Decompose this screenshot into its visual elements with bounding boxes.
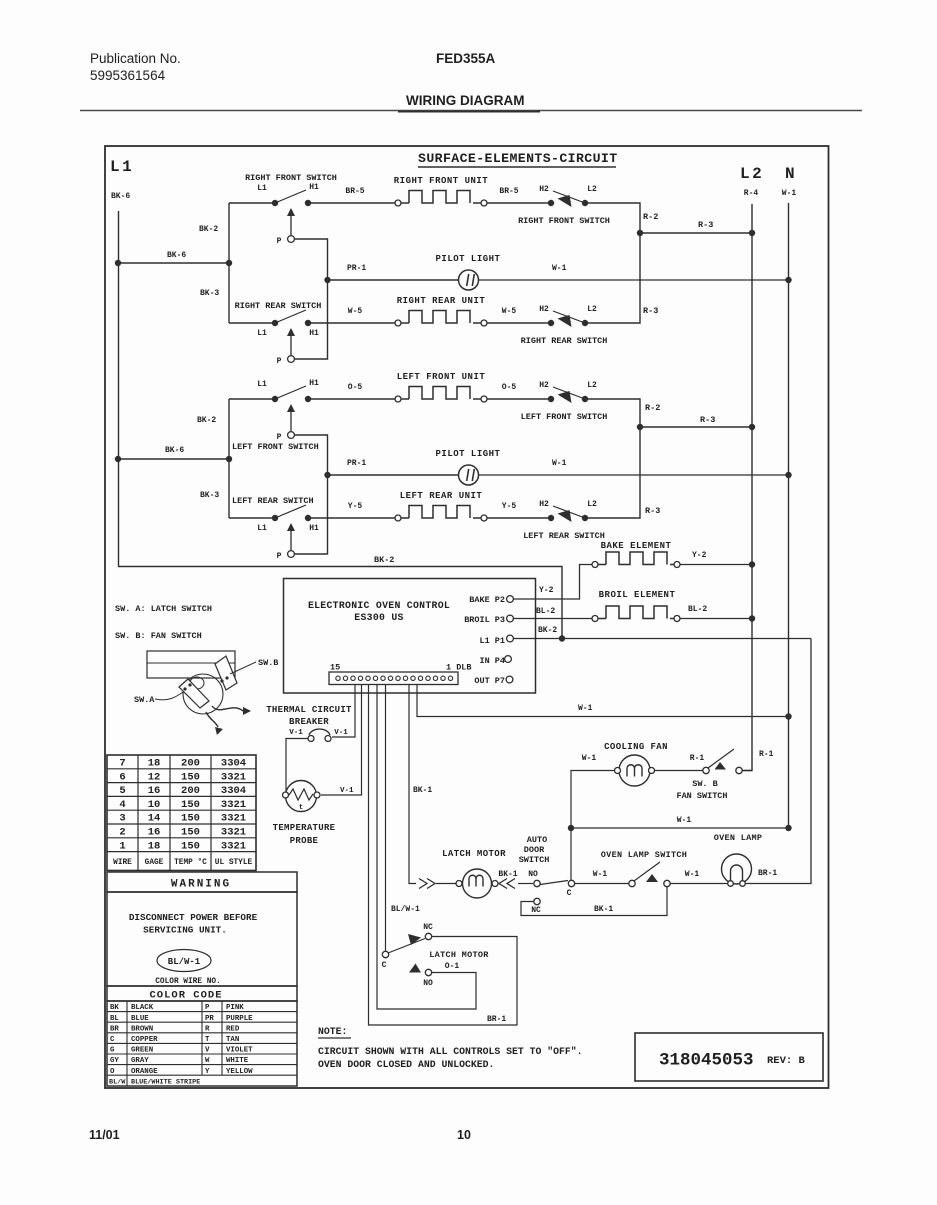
svg-text:16: 16	[148, 785, 161, 797]
wire P to pilot bus	[294, 435, 328, 554]
wire to element	[308, 517, 395, 519]
svg-text:Y-2: Y-2	[539, 586, 554, 595]
surface switch LEFT REAR SWITCH L1-H1 side	[275, 505, 306, 518]
svg-text:L2: L2	[587, 185, 597, 194]
svg-text:LEFT REAR SWITCH: LEFT REAR SWITCH	[232, 496, 314, 506]
wire to oven lamp	[670, 883, 728, 885]
svg-text:PINK: PINK	[226, 1004, 244, 1012]
svg-text:H1: H1	[309, 379, 319, 388]
wire to latch switch NC loop	[369, 685, 518, 1026]
wire W-1 pilot to N	[479, 474, 789, 476]
switch wiper arrow (upper)	[290, 409, 292, 431]
wire element to switch H2	[487, 322, 551, 324]
svg-text:PILOT LIGHT: PILOT LIGHT	[436, 449, 501, 459]
svg-text:V-1: V-1	[334, 729, 348, 737]
svg-text:18: 18	[148, 840, 161, 852]
svg-text:150: 150	[181, 813, 200, 825]
microswitch SW.A	[179, 679, 209, 708]
svg-text:CIRCUIT SHOWN WITH ALL CONTROL: CIRCUIT SHOWN WITH ALL CONTROLS SET TO "…	[318, 1046, 583, 1057]
svg-text:LATCH MOTOR: LATCH MOTOR	[442, 849, 506, 859]
latch switch (motor operated)	[382, 951, 388, 957]
wire L2 upper pair to R bus	[585, 203, 640, 323]
svg-text:Y-2: Y-2	[692, 551, 707, 560]
svg-text:VIOLET: VIOLET	[226, 1047, 253, 1055]
svg-text:150: 150	[181, 771, 200, 783]
svg-text:5: 5	[119, 785, 125, 797]
wire V-1 to temperature probe	[321, 685, 362, 796]
svg-text:BL-2: BL-2	[536, 607, 555, 616]
connector chevrons left	[419, 879, 435, 889]
svg-text:RIGHT REAR UNIT: RIGHT REAR UNIT	[397, 296, 486, 306]
svg-text:BL: BL	[110, 1015, 119, 1023]
svg-text:Y-5: Y-5	[348, 502, 363, 511]
wire N bus (W-1)	[788, 203, 790, 828]
svg-text:SWITCH: SWITCH	[519, 855, 550, 865]
svg-text:LATCH MOTOR: LATCH MOTOR	[429, 950, 489, 960]
svg-text:AUTO: AUTO	[527, 835, 547, 845]
junction pilot feed	[324, 472, 330, 478]
wire breaker to probe	[286, 739, 308, 796]
svg-text:COOLING FAN: COOLING FAN	[604, 742, 668, 752]
svg-text:W-1: W-1	[685, 870, 700, 879]
svg-text:BAKE ELEMENT: BAKE ELEMENT	[601, 541, 672, 551]
wire BK-1 to latch motor	[409, 685, 416, 884]
right front unit row wire	[229, 202, 275, 204]
terminal P (upper)	[288, 432, 295, 439]
svg-text:RIGHT REAR SWITCH: RIGHT REAR SWITCH	[235, 301, 322, 311]
svg-text:PROBE: PROBE	[290, 836, 319, 846]
svg-text:3321: 3321	[221, 840, 246, 852]
wire W-1 long run to N	[417, 685, 789, 717]
svg-text:GREEN: GREEN	[131, 1047, 153, 1055]
svg-text:H1: H1	[309, 524, 319, 533]
svg-text:SW. A: LATCH SWITCH: SW. A: LATCH SWITCH	[115, 604, 212, 614]
svg-text:L1: L1	[110, 158, 134, 176]
svg-text:COLOR CODE: COLOR CODE	[149, 990, 222, 1002]
svg-text:RIGHT REAR SWITCH: RIGHT REAR SWITCH	[521, 336, 608, 346]
EOC connector strip	[329, 672, 458, 685]
svg-text:H2: H2	[539, 185, 549, 194]
wire V-1 to thermal breaker	[332, 685, 355, 738]
color code table	[107, 1001, 297, 1086]
svg-text:BK-3: BK-3	[200, 289, 219, 298]
svg-text:BLACK: BLACK	[131, 1004, 154, 1012]
svg-text:BR-1: BR-1	[758, 869, 777, 878]
svg-text:SW. B: SW. B	[692, 779, 718, 789]
svg-text:R-2: R-2	[645, 403, 660, 413]
svg-text:NC: NC	[531, 906, 541, 915]
svg-text:W-1: W-1	[552, 459, 567, 468]
svg-text:BR-5: BR-5	[345, 187, 364, 196]
svg-text:H2: H2	[539, 305, 549, 314]
wire PR-1	[328, 279, 459, 281]
svg-text:DISCONNECT POWER BEFORE: DISCONNECT POWER BEFORE	[129, 912, 258, 923]
svg-text:3321: 3321	[221, 771, 246, 783]
svg-text:SERVICING UNIT.: SERVICING UNIT.	[143, 925, 227, 936]
svg-text:O-5: O-5	[348, 383, 363, 392]
svg-text:TAN: TAN	[226, 1036, 239, 1044]
svg-text:R: R	[205, 1025, 210, 1033]
svg-text:LEFT REAR UNIT: LEFT REAR UNIT	[400, 491, 483, 501]
svg-text:P: P	[277, 552, 282, 561]
svg-text:BK-2: BK-2	[538, 626, 557, 635]
svg-text:RIGHT FRONT SWITCH: RIGHT FRONT SWITCH	[245, 173, 337, 183]
svg-text:BROWN: BROWN	[131, 1025, 153, 1033]
svg-text:REV: B: REV: B	[767, 1055, 806, 1067]
svg-text:ES300 US: ES300 US	[354, 612, 403, 623]
svg-text:T: T	[205, 1036, 210, 1044]
svg-text:6: 6	[119, 771, 125, 783]
svg-text:150: 150	[181, 799, 200, 811]
part number box 318045053 REV: B	[635, 1033, 823, 1081]
svg-text:5995361564: 5995361564	[90, 68, 166, 83]
wire BK-2 bottom run to EOC L1	[118, 567, 562, 640]
svg-text:V: V	[205, 1047, 210, 1055]
surface switch RIGHT FRONT SWITCH L1-H1 side	[275, 190, 306, 203]
svg-text:16: 16	[148, 827, 161, 839]
svg-text:H2: H2	[539, 381, 549, 390]
auto door switch NC branch	[534, 898, 540, 904]
svg-text:3321: 3321	[221, 799, 246, 811]
wire BK-2 L1P1 to oven-lamp bus	[513, 638, 811, 640]
svg-text:BK-6: BK-6	[165, 446, 184, 455]
svg-text:PR-1: PR-1	[347, 459, 366, 468]
svg-text:P: P	[277, 237, 282, 246]
svg-text:BK-6: BK-6	[111, 192, 130, 201]
svg-text:3304: 3304	[221, 758, 246, 770]
wire gage table	[107, 755, 256, 871]
svg-text:t: t	[299, 804, 303, 812]
svg-text:BK-1: BK-1	[498, 870, 517, 879]
svg-text:BR: BR	[110, 1025, 119, 1033]
wire R-3 lower jumper	[640, 426, 752, 428]
svg-text:3321: 3321	[221, 827, 246, 839]
svg-text:ELECTRONIC OVEN CONTROL: ELECTRONIC OVEN CONTROL	[308, 600, 450, 611]
wire element to switch H2	[487, 202, 551, 204]
svg-text:O-1: O-1	[445, 962, 460, 971]
svg-text:RIGHT FRONT UNIT: RIGHT FRONT UNIT	[394, 176, 489, 186]
wire to element	[308, 202, 395, 204]
svg-text:WHITE: WHITE	[226, 1057, 249, 1065]
svg-text:4: 4	[119, 799, 125, 811]
svg-text:R-4: R-4	[744, 189, 759, 198]
fan switch SW.B	[703, 767, 709, 773]
svg-text:BROIL ELEMENT: BROIL ELEMENT	[599, 590, 676, 600]
svg-text:18: 18	[148, 758, 161, 770]
svg-text:BL/W-1: BL/W-1	[168, 957, 201, 967]
svg-text:R-3: R-3	[700, 415, 715, 425]
wire element to switch H2	[487, 517, 551, 519]
svg-text:DOOR: DOOR	[524, 845, 545, 855]
surface switch RIGHT REAR SWITCH L1-H1 side	[275, 310, 306, 323]
svg-text:W-5: W-5	[348, 307, 363, 316]
wire C to oven lamp switch	[575, 883, 630, 885]
svg-text:NOTE:: NOTE:	[318, 1026, 347, 1037]
svg-text:P: P	[277, 433, 282, 442]
svg-text:H2: H2	[539, 500, 549, 509]
svg-text:200: 200	[181, 785, 200, 797]
svg-text:SW. B: FAN SWITCH: SW. B: FAN SWITCH	[115, 631, 202, 641]
svg-text:R-2: R-2	[643, 212, 658, 222]
svg-text:UL STYLE: UL STYLE	[215, 859, 253, 867]
svg-text:H1: H1	[309, 329, 319, 338]
svg-text:BROIL P3: BROIL P3	[464, 615, 505, 625]
svg-text:Y: Y	[205, 1068, 210, 1076]
svg-text:L1: L1	[257, 184, 267, 193]
latch assembly drawing	[147, 651, 235, 678]
svg-text:C: C	[382, 961, 387, 970]
terminal P (lower)	[288, 356, 295, 363]
svg-text:OVEN LAMP SWITCH: OVEN LAMP SWITCH	[601, 850, 687, 860]
svg-text:11/01: 11/01	[89, 1128, 120, 1142]
svg-text:R-1: R-1	[690, 754, 705, 763]
svg-text:SURFACE-ELEMENTS-CIRCUIT: SURFACE-ELEMENTS-CIRCUIT	[418, 151, 618, 166]
svg-text:3: 3	[119, 813, 125, 825]
surface switch LEFT FRONT SWITCH L1-H1 side	[275, 386, 306, 399]
svg-text:R-3: R-3	[645, 506, 660, 516]
svg-text:FED355A: FED355A	[436, 51, 496, 66]
svg-text:GY: GY	[110, 1057, 119, 1065]
svg-text:W: W	[205, 1057, 210, 1065]
svg-text:COPPER: COPPER	[131, 1036, 158, 1044]
svg-text:L1: L1	[257, 380, 267, 389]
svg-text:C: C	[110, 1036, 115, 1044]
svg-text:LEFT FRONT SWITCH: LEFT FRONT SWITCH	[521, 412, 608, 422]
svg-text:SW.A: SW.A	[134, 695, 155, 705]
svg-text:BAKE P2: BAKE P2	[469, 595, 505, 605]
svg-text:10: 10	[457, 1128, 471, 1142]
junction pilot feed	[324, 277, 330, 283]
diagram outer border	[105, 146, 829, 1088]
svg-text:H1: H1	[309, 183, 319, 192]
right rear unit row wire	[229, 322, 275, 324]
svg-text:3321: 3321	[221, 813, 246, 825]
svg-text:NO: NO	[528, 870, 538, 879]
wire fan to fan switch	[655, 770, 704, 772]
svg-text:BK: BK	[110, 1004, 119, 1012]
wire switch bus upper (BK-2/BK-3)	[228, 203, 230, 323]
svg-text:BK-6: BK-6	[167, 251, 186, 260]
microswitch SW.B	[215, 656, 237, 690]
svg-text:L1: L1	[257, 329, 267, 338]
svg-text:PR-1: PR-1	[347, 264, 366, 273]
svg-text:1: 1	[119, 840, 125, 852]
wire to element	[308, 322, 395, 324]
switch wiper arrow (upper)	[290, 213, 292, 235]
svg-text:7: 7	[119, 758, 125, 770]
svg-text:COLOR WIRE NO.: COLOR WIRE NO.	[155, 978, 221, 986]
wire to latch switch NO loop (O-1)	[377, 685, 476, 1010]
svg-text:318045053: 318045053	[659, 1051, 754, 1071]
svg-text:BR-5: BR-5	[499, 187, 518, 196]
svg-text:RIGHT FRONT SWITCH: RIGHT FRONT SWITCH	[518, 216, 610, 226]
svg-text:OVEN LAMP: OVEN LAMP	[714, 833, 763, 843]
svg-text:IN P4: IN P4	[479, 656, 505, 666]
svg-text:W-1: W-1	[593, 870, 608, 879]
wire L2 lower pair to R bus	[585, 399, 640, 518]
svg-text:14: 14	[148, 813, 161, 825]
svg-text:L2: L2	[587, 305, 597, 314]
svg-text:BLUE/WHITE STRIPE: BLUE/WHITE STRIPE	[131, 1079, 200, 1087]
svg-text:10: 10	[148, 799, 161, 811]
svg-text:W-1: W-1	[578, 704, 593, 713]
svg-text:150: 150	[181, 827, 200, 839]
svg-text:V-1: V-1	[289, 729, 303, 737]
warning box	[107, 872, 297, 892]
terminal P (upper)	[288, 236, 295, 243]
svg-text:OUT P7: OUT P7	[474, 676, 505, 686]
svg-text:THERMAL CIRCUIT: THERMAL CIRCUIT	[266, 705, 352, 715]
wire fan to W-1 bus	[571, 771, 615, 881]
svg-text:YELLOW: YELLOW	[226, 1068, 253, 1076]
svg-text:BLUE: BLUE	[131, 1015, 149, 1023]
svg-text:FAN SWITCH: FAN SWITCH	[676, 791, 727, 801]
svg-text:LEFT FRONT SWITCH: LEFT FRONT SWITCH	[232, 442, 319, 452]
header horizontal rule	[80, 110, 862, 112]
svg-text:L1: L1	[257, 524, 267, 533]
switch wiper arrow (lower)	[290, 333, 292, 355]
wire W-1 pilot to N	[479, 279, 789, 281]
color code header	[107, 986, 297, 1001]
svg-text:W-1: W-1	[582, 754, 597, 763]
svg-text:P: P	[205, 1004, 210, 1012]
wire element to switch H2	[487, 398, 551, 400]
svg-text:R-3: R-3	[643, 306, 658, 316]
svg-text:W-1: W-1	[782, 189, 797, 198]
wire BL/W-1 to latch switch C	[385, 685, 387, 952]
svg-text:NC: NC	[423, 923, 433, 932]
svg-text:Y-5: Y-5	[502, 502, 517, 511]
svg-text:BREAKER: BREAKER	[289, 717, 329, 727]
wire switch bus lower	[228, 399, 230, 518]
svg-text:SW.B: SW.B	[258, 658, 278, 668]
svg-text:TEMP °C: TEMP °C	[174, 858, 207, 867]
wire R-3 upper jumper	[640, 232, 752, 234]
switch wiper arrow (lower)	[290, 528, 292, 550]
svg-text:RED: RED	[226, 1025, 240, 1033]
svg-text:TEMPERATURE: TEMPERATURE	[273, 823, 336, 833]
svg-text:R-3: R-3	[698, 220, 713, 230]
temperature probe	[286, 781, 317, 812]
svg-text:W-1: W-1	[677, 816, 692, 825]
svg-text:BK-1: BK-1	[594, 905, 613, 914]
wire P to pilot bus	[294, 239, 328, 359]
svg-text:O-5: O-5	[502, 383, 517, 392]
EOC box: ELECTRONIC OVEN CONTROL ES300 US	[284, 579, 536, 694]
svg-text:P: P	[277, 357, 282, 366]
svg-text:O: O	[110, 1068, 115, 1076]
svg-text:PURPLE: PURPLE	[226, 1015, 253, 1023]
svg-text:LEFT REAR SWITCH: LEFT REAR SWITCH	[523, 531, 605, 541]
svg-text:BL/W-1: BL/W-1	[391, 905, 420, 914]
svg-text:200: 200	[181, 758, 200, 770]
svg-text:Publication No.: Publication No.	[90, 51, 181, 66]
svg-text:C: C	[567, 889, 572, 898]
svg-text:12: 12	[148, 771, 161, 783]
svg-text:BK-3: BK-3	[200, 491, 219, 500]
svg-text:BK-2: BK-2	[197, 416, 216, 425]
wire W-1 fan feed to N	[571, 827, 789, 829]
svg-text:3304: 3304	[221, 785, 246, 797]
wire BK-6 lower jumper	[118, 458, 229, 460]
wire BK-6 upper jumper	[118, 262, 229, 264]
svg-text:ORANGE: ORANGE	[131, 1068, 158, 1076]
svg-text:W-5: W-5	[502, 307, 517, 316]
svg-text:BR-1: BR-1	[487, 1015, 506, 1024]
svg-text:W-1: W-1	[552, 264, 567, 273]
svg-text:L2: L2	[740, 165, 764, 183]
svg-text:WARNING: WARNING	[171, 879, 231, 891]
svg-text:OVEN DOOR CLOSED AND UNLOCKED.: OVEN DOOR CLOSED AND UNLOCKED.	[318, 1059, 494, 1070]
svg-text:V-1: V-1	[340, 787, 354, 795]
wire L2 bus (R-4)	[742, 204, 752, 771]
svg-text:BK-2: BK-2	[374, 555, 394, 565]
terminal P (lower)	[288, 551, 295, 558]
svg-text:LEFT FRONT UNIT: LEFT FRONT UNIT	[397, 372, 486, 382]
svg-text:WIRE: WIRE	[113, 859, 132, 867]
svg-text:GAGE: GAGE	[145, 859, 164, 867]
left rear unit row wire	[229, 517, 275, 519]
wire L1 bus (BK-6) vertical	[118, 211, 120, 567]
svg-text:BL-2: BL-2	[688, 605, 707, 614]
svg-text:PR: PR	[205, 1015, 214, 1023]
svg-text:PILOT LIGHT: PILOT LIGHT	[436, 254, 501, 264]
svg-text:L2: L2	[587, 381, 597, 390]
svg-text:2: 2	[119, 827, 125, 839]
svg-text:WIRING DIAGRAM: WIRING DIAGRAM	[406, 93, 525, 108]
svg-text:GRAY: GRAY	[131, 1057, 149, 1065]
svg-text:L2: L2	[587, 500, 597, 509]
svg-text:BL/W: BL/W	[109, 1079, 126, 1087]
svg-text:BK-2: BK-2	[199, 225, 218, 234]
connector chevrons right	[499, 879, 515, 889]
svg-text:R-1: R-1	[759, 750, 774, 759]
svg-text:N: N	[785, 165, 795, 183]
svg-text:1 DLB: 1 DLB	[446, 663, 472, 673]
svg-text:150: 150	[181, 840, 200, 852]
svg-text:G: G	[110, 1047, 115, 1055]
wire PR-1	[328, 474, 459, 476]
svg-text:BK-1: BK-1	[413, 786, 432, 795]
left front unit row wire	[229, 398, 275, 400]
svg-text:L1 P1: L1 P1	[479, 636, 505, 646]
svg-text:15: 15	[330, 663, 340, 673]
wire to element	[308, 398, 395, 400]
svg-text:NO: NO	[423, 979, 433, 988]
harness wires	[212, 706, 243, 711]
